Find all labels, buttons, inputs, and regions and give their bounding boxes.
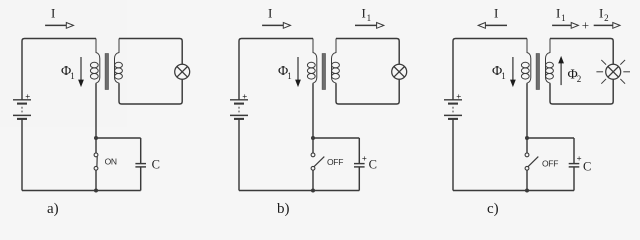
svg-text:I: I bbox=[599, 6, 603, 21]
svg-text:+: + bbox=[577, 153, 582, 163]
svg-text:b): b) bbox=[277, 201, 290, 217]
svg-text:I: I bbox=[268, 6, 272, 21]
svg-text:C: C bbox=[583, 160, 591, 174]
svg-text:I: I bbox=[494, 6, 498, 21]
svg-text:1: 1 bbox=[70, 71, 75, 81]
svg-text:OFF: OFF bbox=[327, 157, 343, 167]
svg-text:1: 1 bbox=[367, 13, 372, 23]
svg-text:+: + bbox=[25, 91, 30, 101]
svg-text:I: I bbox=[362, 6, 366, 21]
svg-text:+: + bbox=[362, 153, 367, 163]
svg-text:c): c) bbox=[487, 201, 499, 217]
svg-text:C: C bbox=[369, 158, 377, 172]
svg-text:2: 2 bbox=[604, 13, 609, 23]
svg-text:ON: ON bbox=[105, 156, 117, 166]
svg-text:a): a) bbox=[47, 201, 59, 217]
svg-text:OFF: OFF bbox=[542, 159, 558, 169]
svg-text:+: + bbox=[456, 91, 461, 101]
svg-text:1: 1 bbox=[287, 71, 292, 81]
svg-text:+: + bbox=[242, 91, 247, 101]
svg-text:2: 2 bbox=[577, 74, 582, 84]
svg-text:+: + bbox=[582, 18, 589, 33]
svg-text:1: 1 bbox=[501, 71, 506, 81]
svg-text:C: C bbox=[152, 158, 160, 172]
svg-text:I: I bbox=[51, 6, 55, 21]
svg-text:1: 1 bbox=[561, 13, 566, 23]
svg-text:I: I bbox=[556, 6, 560, 21]
